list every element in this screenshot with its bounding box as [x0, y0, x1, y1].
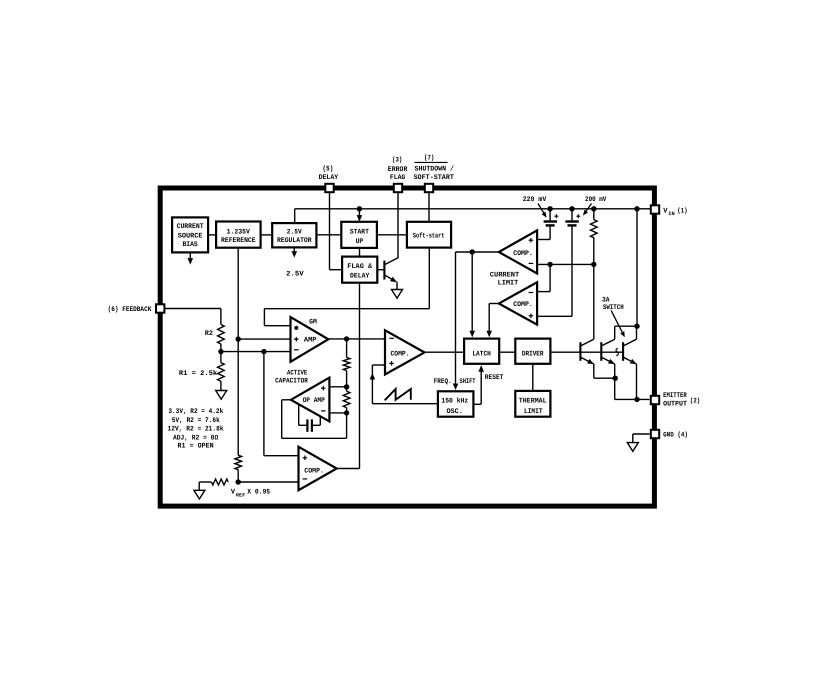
svg-text:(6) FEEDBACK: (6) FEEDBACK — [108, 305, 152, 314]
svg-text:Soft-start: Soft-start — [413, 232, 445, 241]
svg-text:(7): (7) — [424, 154, 434, 163]
svg-text:SOFT-START: SOFT-START — [414, 174, 454, 182]
svg-text:CURRENT: CURRENT — [490, 272, 519, 280]
svg-text:DELAY: DELAY — [319, 174, 339, 182]
svg-text:RESET: RESET — [485, 374, 504, 382]
svg-text:FLAG &: FLAG & — [347, 263, 373, 271]
svg-text:DRIVER: DRIVER — [522, 351, 544, 359]
svg-text:CAPACITOR: CAPACITOR — [275, 377, 308, 385]
svg-text:THERMAL: THERMAL — [519, 398, 547, 406]
svg-text:LIMIT: LIMIT — [524, 408, 543, 416]
svg-text:R2: R2 — [205, 330, 213, 338]
svg-text:EMITTER: EMITTER — [663, 392, 687, 400]
svg-text:(3): (3) — [392, 156, 402, 165]
svg-text:FLAG: FLAG — [390, 174, 405, 182]
svg-text:SWITCH: SWITCH — [603, 304, 624, 312]
svg-text:IN: IN — [668, 211, 674, 217]
svg-text:START: START — [350, 229, 369, 237]
svg-text:FREQ.: FREQ. — [434, 378, 452, 386]
svg-text:X 0.95: X 0.95 — [247, 489, 270, 497]
svg-text:BIAS: BIAS — [182, 241, 197, 249]
svg-text:SOURCE: SOURCE — [178, 232, 203, 240]
svg-text:12V, R2 = 21.8k: 12V, R2 = 21.8k — [168, 425, 224, 434]
svg-text:200 mV: 200 mV — [585, 196, 607, 204]
svg-text:220 mV: 220 mV — [523, 196, 547, 204]
svg-text:(5): (5) — [322, 165, 333, 174]
svg-text:LIMIT: LIMIT — [498, 279, 519, 287]
svg-text:CURRENT: CURRENT — [177, 223, 204, 231]
svg-text:1.235V: 1.235V — [227, 229, 251, 237]
svg-text:UP: UP — [356, 238, 364, 246]
svg-text:ADJ, R2 = 0Ω: ADJ, R2 = 0Ω — [173, 434, 219, 442]
svg-text:COMP.: COMP. — [513, 301, 533, 309]
svg-text:(2): (2) — [690, 397, 700, 406]
svg-text:OP AMP: OP AMP — [303, 397, 325, 405]
svg-text:ERROR: ERROR — [388, 166, 408, 174]
svg-text:COMP.: COMP. — [391, 351, 410, 359]
svg-text:OSC.: OSC. — [446, 408, 463, 416]
svg-text:SHUTDOWN /: SHUTDOWN / — [415, 164, 454, 173]
svg-text:(1): (1) — [677, 206, 687, 215]
svg-text:OUTPUT: OUTPUT — [663, 401, 687, 409]
svg-text:LATCH: LATCH — [472, 351, 491, 359]
svg-text:2.5V: 2.5V — [286, 270, 304, 278]
svg-text:COMP.: COMP. — [304, 467, 324, 475]
svg-text:REFERENCE: REFERENCE — [221, 237, 256, 245]
svg-text:2.5V: 2.5V — [287, 229, 303, 237]
svg-text:COMP.: COMP. — [513, 250, 533, 258]
svg-text:REGULATOR: REGULATOR — [277, 237, 312, 245]
svg-text:REF: REF — [236, 492, 246, 498]
svg-text:ACTIVE: ACTIVE — [287, 370, 307, 378]
svg-text:AMP: AMP — [304, 336, 317, 344]
svg-text:GM: GM — [309, 319, 317, 327]
svg-text:SHIFT: SHIFT — [460, 378, 476, 386]
svg-text:GND (4): GND (4) — [663, 431, 688, 440]
svg-text:R1 = OPEN: R1 = OPEN — [178, 443, 214, 451]
svg-text:R1 = 2.5k: R1 = 2.5k — [179, 369, 217, 378]
svg-text:DELAY: DELAY — [350, 273, 370, 281]
svg-text:3.3V, R2 = 4.2k: 3.3V, R2 = 4.2k — [168, 407, 223, 416]
svg-text:150 kHz: 150 kHz — [441, 397, 468, 406]
svg-text:5V, R2 = 7.6k: 5V, R2 = 7.6k — [172, 416, 220, 425]
